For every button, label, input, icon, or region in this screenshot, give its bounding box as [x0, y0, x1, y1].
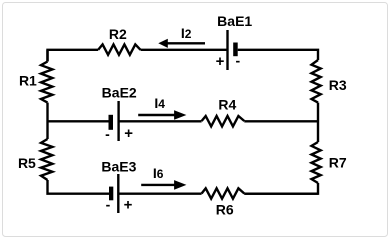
BaE2 label — [102, 85, 137, 101]
svg-text:I2: I2 — [181, 25, 192, 41]
wire left vertical top lead of R1 — [46, 50, 48, 62]
wire middle-left junction to BaE2 — [48, 120, 109, 122]
BaE3 plus sign — [124, 197, 133, 214]
battery BaE2 — [109, 101, 119, 141]
svg-text:R4: R4 — [218, 97, 236, 113]
wire R4 to right vertical — [244, 120, 318, 122]
resistor R5 — [41, 139, 52, 180]
wire right vertical top lead of R7 — [317, 121, 319, 142]
R1 value label — [19, 73, 37, 89]
wire R5 to bottom-left corner — [48, 180, 110, 194]
BaE1 plus sign — [216, 53, 225, 70]
I2 current label — [181, 25, 192, 41]
BaE2 plus sign — [124, 125, 133, 142]
BaE3 label — [101, 159, 136, 175]
svg-text:-: - — [106, 196, 111, 212]
svg-text:BaE3: BaE3 — [101, 159, 136, 175]
svg-text:R7: R7 — [329, 154, 347, 170]
resistor R4 — [202, 116, 245, 126]
svg-text:-: - — [105, 126, 110, 142]
svg-text:+: + — [216, 53, 225, 70]
wire BaE3 to R6 — [118, 192, 201, 194]
svg-text:BaE1: BaE1 — [217, 13, 252, 29]
svg-text:+: + — [124, 125, 133, 142]
BaE1 label — [217, 13, 252, 29]
svg-text:R1: R1 — [19, 73, 37, 89]
R5 value label — [18, 155, 36, 171]
R6 value label — [216, 202, 234, 218]
wire R2 to BaE1 — [141, 49, 227, 51]
I6 current label — [153, 165, 164, 181]
I4 current label — [154, 95, 165, 111]
svg-text:-: - — [235, 53, 240, 69]
wire R6 to bottom-right corner — [244, 192, 318, 194]
resistor R6 — [202, 188, 245, 198]
current arrow I2 — [158, 39, 205, 48]
svg-text:BaE2: BaE2 — [102, 85, 137, 101]
BaE2 minus sign — [105, 126, 110, 142]
resistor R3 — [312, 60, 321, 103]
svg-text:R2: R2 — [109, 26, 127, 42]
current arrow I4 — [138, 110, 186, 120]
battery BaE1 — [228, 30, 238, 70]
BaE3 minus sign — [106, 196, 111, 212]
R7 value label — [329, 154, 347, 170]
wire R7 to bottom-right corner — [244, 183, 318, 194]
wire BaE1 to top-right corner — [238, 50, 318, 60]
resistor R7 — [312, 142, 321, 183]
svg-text:R5: R5 — [18, 155, 36, 171]
svg-text:+: + — [124, 197, 133, 214]
svg-text:R6: R6 — [216, 202, 234, 218]
resistor R1 — [41, 62, 52, 103]
resistor R2 — [98, 44, 140, 54]
battery BaE3 — [109, 174, 118, 213]
R2 value label — [109, 26, 127, 42]
R3 value label — [329, 77, 347, 93]
wire top-left to R2 — [48, 50, 99, 62]
svg-text:I6: I6 — [153, 165, 164, 181]
current arrow I6 — [141, 180, 186, 190]
BaE1 minus sign — [235, 53, 240, 69]
wire R3 to middle-right junction — [317, 103, 319, 121]
svg-text:R3: R3 — [329, 77, 347, 93]
wire BaE2 to R4 — [119, 120, 202, 122]
R4 value label — [218, 97, 236, 113]
svg-text:I4: I4 — [154, 95, 165, 111]
wire R1 to middle junction — [46, 103, 48, 139]
